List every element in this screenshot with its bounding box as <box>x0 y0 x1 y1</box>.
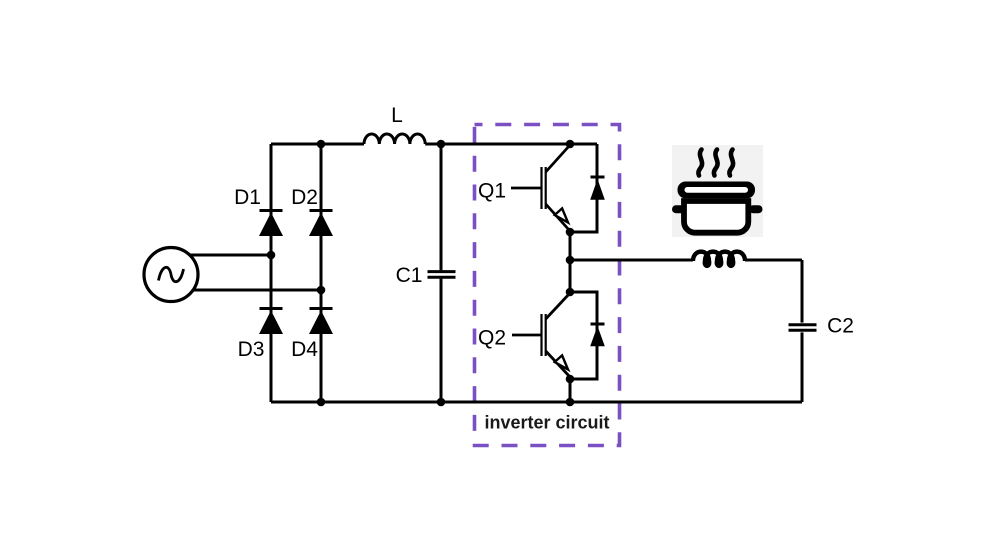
wire: C2 branch lower <box>801 332 804 402</box>
wire: Q1-Q2 midpoint vertical <box>569 232 572 292</box>
wire: bottom rail <box>271 401 802 404</box>
svg-text:D3: D3 <box>238 338 265 361</box>
diode D2 <box>309 211 333 237</box>
IGBT Q2 <box>512 293 570 377</box>
wire: C1 branch lower <box>440 279 443 402</box>
AC source V <box>144 248 198 302</box>
svg-text:C2: C2 <box>827 315 854 338</box>
freewheel diode of Q2 <box>590 324 605 346</box>
wire: AC source top lead <box>188 254 271 257</box>
cooking pot icon <box>676 150 759 233</box>
wire: top rail right segment <box>425 143 597 146</box>
svg-text:D2: D2 <box>291 186 318 209</box>
inverter circuit dashed boundary box <box>475 125 620 446</box>
svg-text:C1: C1 <box>396 264 423 287</box>
svg-text:D1: D1 <box>234 186 261 209</box>
diode D4 <box>309 309 333 335</box>
svg-text:Q2: Q2 <box>478 327 506 350</box>
wire: left bridge branch <box>270 144 273 402</box>
capacitor C1 <box>428 272 456 278</box>
diode D1 <box>259 211 283 237</box>
svg-text:D4: D4 <box>291 338 318 361</box>
cooking pot icon background <box>672 145 763 237</box>
wire: output node to work coil <box>570 259 693 262</box>
wire: Q2 emitter to bottom rail <box>569 379 572 402</box>
wire: C1 branch upper <box>440 144 443 270</box>
svg-text:Q1: Q1 <box>478 180 506 203</box>
freewheel diode of Q1 <box>590 177 605 200</box>
capacitor C2 <box>789 325 817 331</box>
wire: Q2 freewheel diode branch <box>570 292 597 379</box>
wire: top rail left segment <box>271 143 364 146</box>
svg-text:inverter circuit: inverter circuit <box>484 413 609 433</box>
IGBT Q1 <box>511 145 570 231</box>
wire: C2 branch upper <box>801 260 804 323</box>
wire: work coil to C2 branch <box>745 259 802 262</box>
diode D3 <box>259 309 283 335</box>
inductor L <box>364 134 425 144</box>
work coil (induction coil) <box>693 252 745 266</box>
svg-text:L: L <box>391 104 403 127</box>
wire: right bridge branch <box>320 144 323 402</box>
wire: Q1 freewheel diode branch <box>570 144 597 232</box>
junction nodes <box>267 140 575 407</box>
wire: AC source bottom lead <box>192 289 321 292</box>
